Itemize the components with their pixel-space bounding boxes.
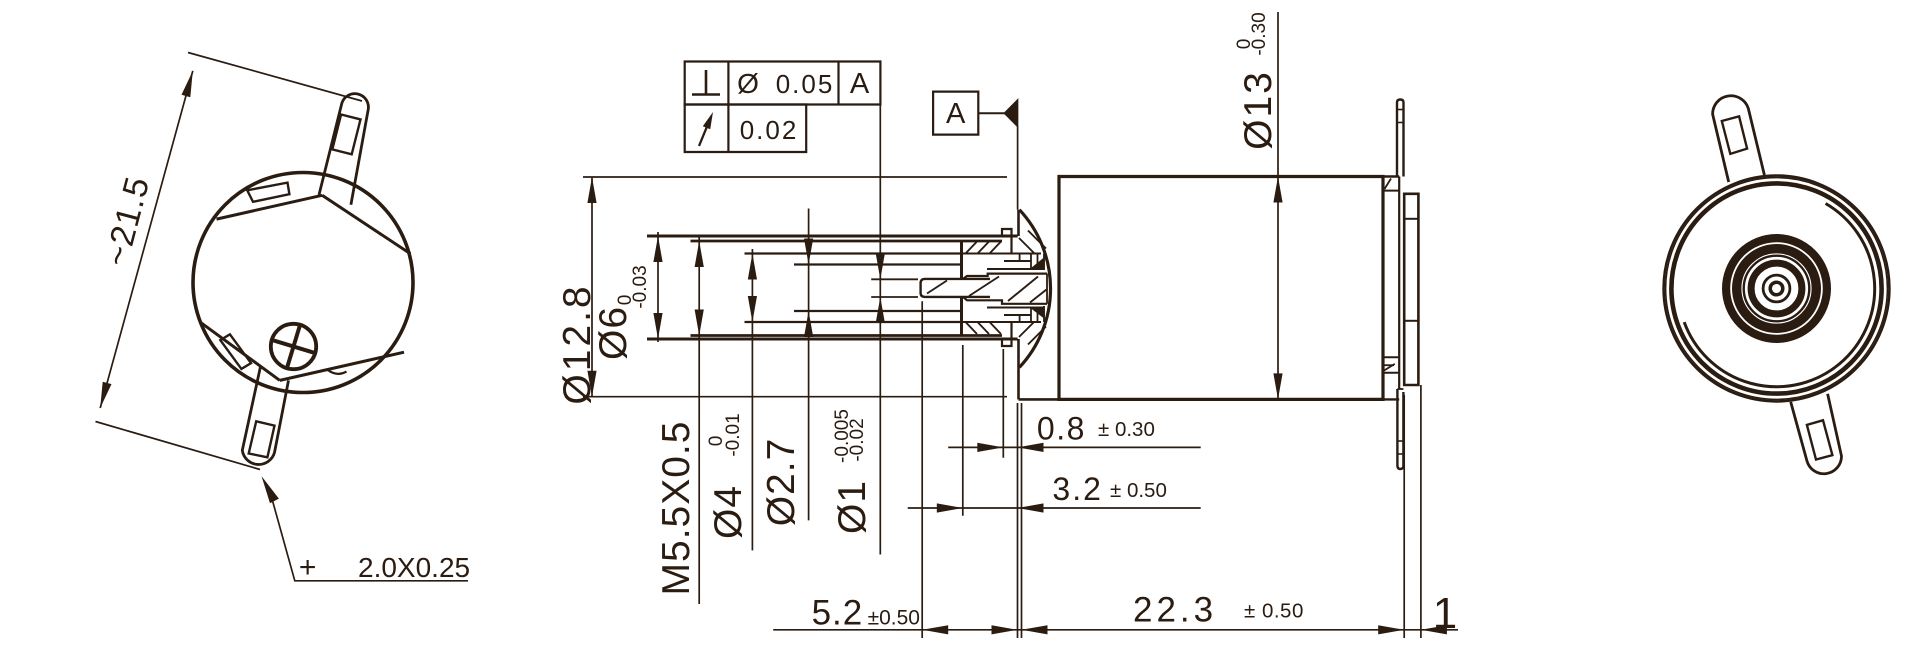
front view pin ring	[1770, 282, 1783, 295]
contact bottom vertical b	[1037, 308, 1039, 323]
dimension ~21.5 bottom arrow	[100, 382, 111, 408]
dim 0.8 left arrow	[977, 443, 1003, 452]
svg-text:-0.02: -0.02	[847, 418, 868, 461]
FCF frame row 2	[685, 105, 807, 153]
body top edge extension	[1383, 175, 1399, 177]
rear bottom pocket mid line	[1383, 364, 1394, 366]
left view bottom lug	[242, 367, 288, 465]
dim Ø1 top arrow	[876, 253, 885, 279]
ext line x922 (pin tip)	[921, 301, 923, 638]
datum A box	[933, 92, 978, 135]
rear cap line b	[1404, 320, 1418, 322]
dome upper face	[1017, 210, 1020, 236]
dim 0.8 line	[948, 446, 1200, 448]
contact bottom lower line	[963, 321, 1041, 323]
svg-text:5.2: 5.2	[812, 594, 864, 633]
dim Ø6 bottom arrow	[653, 313, 662, 339]
dim Ø4 top arrow	[748, 254, 757, 280]
sleeve flange bottom tab	[1002, 322, 1012, 347]
svg-text:Ø4: Ø4	[707, 485, 750, 539]
front view bore ring	[1763, 275, 1790, 302]
svg-text:M5.5X0.5: M5.5X0.5	[655, 421, 698, 596]
svg-text:± 0.50: ± 0.50	[1244, 600, 1304, 623]
svg-text:±0.50: ±0.50	[868, 607, 920, 630]
left view bottom-right chord	[280, 352, 404, 380]
dim 3.2 line	[908, 507, 1201, 509]
dim 5.2 left arrow	[922, 625, 948, 634]
left view cross bar 2	[287, 326, 299, 367]
rear bottom pocket upper line	[1383, 356, 1399, 358]
dim Ø12.8 top arrow	[587, 177, 596, 203]
rear cap line a	[1404, 218, 1418, 220]
body bottom edge extension	[1383, 398, 1399, 400]
dim M5.5X0.5 top arrow	[695, 241, 704, 267]
svg-text:-0.30: -0.30	[1249, 12, 1270, 55]
svg-text:A: A	[850, 68, 870, 100]
svg-text:± 0.50: ± 0.50	[1110, 479, 1167, 502]
svg-text:± 0.30: ± 0.30	[1098, 418, 1155, 441]
contact top vertical a	[1030, 254, 1032, 270]
left view cross circle	[271, 324, 316, 369]
FCF runout symbol	[699, 112, 713, 146]
dim Ø2.7 top tick	[794, 264, 824, 266]
ext line x1021.5	[1021, 403, 1023, 638]
dim 1 arrow	[1421, 625, 1447, 634]
dim Ø13 line	[1277, 12, 1279, 399]
rear bottom lug hole lower	[1398, 453, 1403, 455]
barrel bottom outer line	[647, 338, 1018, 341]
left view top lug	[319, 94, 368, 205]
dim 22.3 right arrow	[1378, 625, 1404, 634]
ext line x1420.9	[1420, 385, 1422, 638]
dim 22.3 left arrow	[1022, 625, 1048, 634]
bore Ø2.7 bottom line	[794, 310, 961, 312]
leader arrow at lug	[262, 476, 279, 503]
ext line x1017.5	[1017, 403, 1019, 638]
datum triangle	[1005, 100, 1018, 126]
center pin end	[1046, 274, 1048, 304]
svg-text:0.05: 0.05	[776, 69, 835, 99]
rear top lug	[1397, 100, 1404, 177]
contact bottom mid line	[1004, 314, 1031, 316]
dim 0.8 right arrow	[1018, 443, 1044, 452]
FCF row1 divider a	[727, 62, 729, 105]
front view rim inner arc b	[1684, 204, 1874, 387]
dim Ø1 / FCF leader line	[879, 105, 881, 555]
FCF row1 text Ø 0.05	[737, 68, 834, 99]
front view bezel circle	[1666, 178, 1888, 400]
front view bottom lug hole	[1807, 420, 1833, 459]
left view cross bar 1	[273, 340, 314, 352]
svg-text:-0.03: -0.03	[630, 265, 651, 308]
dome arc	[1019, 210, 1050, 368]
sleeve flange top tab	[1002, 229, 1012, 254]
dim Ø13 top arrow	[1273, 177, 1282, 203]
svg-text:Ø6: Ø6	[592, 306, 635, 360]
rear top lug hole lower	[1398, 122, 1404, 124]
thread bottom line	[691, 334, 1003, 337]
dim Ø12.8 bottom extension line	[583, 396, 1007, 398]
dim Ø6 top arrow	[653, 236, 662, 262]
dim Ø6 line	[657, 232, 659, 342]
front view bottom lug	[1791, 394, 1842, 474]
svg-text:3.2: 3.2	[1052, 471, 1102, 507]
contact top mid line	[1004, 260, 1031, 262]
section hatching	[966, 231, 1046, 345]
dim Ø12.8 line	[591, 177, 593, 397]
sleeve end face lower	[960, 297, 963, 336]
rear bottom lug	[1397, 389, 1403, 469]
contact bottom vertical a	[1030, 308, 1032, 323]
svg-text:Ø13: Ø13	[1237, 70, 1280, 150]
dome lower face	[1019, 339, 1060, 399]
left view top-left chord	[217, 195, 323, 219]
datum leader	[978, 112, 1005, 114]
rear bottom lug hole upper	[1398, 440, 1403, 442]
front view outer circle	[1664, 176, 1890, 402]
left view top lug hole	[332, 115, 360, 155]
svg-text:-0.01: -0.01	[723, 413, 744, 456]
rear top pocket	[1383, 190, 1399, 192]
bore Ø4 bottom line	[745, 321, 962, 323]
contact top lower line	[987, 268, 1044, 270]
left view upper-left nut facet	[247, 183, 289, 202]
FCF perpendicularity symbol	[692, 70, 720, 95]
front view top lug	[1713, 96, 1765, 182]
svg-text:0.8: 0.8	[1037, 411, 1086, 447]
svg-text:+: +	[299, 551, 317, 584]
dim Ø2.7 line	[808, 209, 810, 521]
front view thin ring	[1744, 256, 1810, 322]
dim Ø4 bottom arrow	[748, 296, 757, 322]
left view lower-left nut facet	[220, 334, 251, 369]
dim Ø2.7 top arrow	[804, 239, 813, 265]
step vertical bottom	[1019, 315, 1021, 322]
front view nut ring outer	[1726, 238, 1827, 339]
dim Ø12.8 top extension line	[583, 176, 1007, 178]
rear top pocket hatch	[1385, 179, 1392, 190]
ext line x962.8 (sleeve face)	[962, 345, 964, 516]
rear bottom pocket hatch	[1384, 364, 1395, 371]
datum extension line	[1017, 126, 1019, 210]
rear top lug hole upper	[1398, 109, 1404, 111]
thread top line	[691, 240, 1003, 243]
leader line	[271, 494, 469, 581]
rear bottom pocket lower line	[1383, 372, 1399, 374]
svg-text:Ø: Ø	[737, 68, 759, 99]
left view outer circle	[193, 173, 413, 393]
dim Ø12.8 bottom arrow	[587, 371, 596, 397]
dim 3.2 left arrow	[937, 503, 963, 512]
contact bottom upper line	[987, 307, 1044, 309]
dim Ø4 line	[751, 249, 753, 550]
contact top wedge	[1031, 259, 1044, 270]
FCF frame row 1	[685, 62, 881, 105]
left view top-right chord	[322, 195, 410, 253]
dim 3.2 right arrow	[1018, 503, 1044, 512]
rear flange plate	[1398, 177, 1400, 390]
center pin bottom steps	[963, 297, 1047, 304]
bore Ø2.7 top line	[794, 263, 961, 265]
dimension ~21.5 bottom extension line	[96, 422, 261, 470]
contact bottom wedge	[1031, 308, 1044, 318]
dimension ~21.5 top extension line	[188, 53, 362, 102]
sleeve end face upper	[960, 241, 963, 279]
center pin top steps	[963, 274, 1047, 279]
svg-text:1: 1	[1433, 589, 1457, 638]
dim Ø2.7 bottom arrow	[804, 311, 813, 337]
svg-text:22.3: 22.3	[1133, 591, 1217, 630]
svg-text:Ø1: Ø1	[831, 480, 874, 534]
bore Ø1 top tick	[871, 278, 918, 280]
svg-text:0.02: 0.02	[740, 115, 799, 145]
dim Ø13 bottom arrow	[1273, 373, 1282, 399]
svg-text:A: A	[946, 98, 966, 130]
ext line x1404.2	[1403, 395, 1405, 638]
contact top upper line	[963, 253, 1041, 255]
left view rivet arc	[327, 370, 347, 374]
dim M5.5X0.5 line	[698, 237, 700, 604]
svg-text:2.0X0.25: 2.0X0.25	[358, 552, 470, 583]
bore Ø1 bottom tick	[871, 296, 918, 298]
dim bottom line	[773, 629, 1458, 631]
dim M5.5X0.5 bottom arrow	[695, 310, 704, 336]
dim 5.2 right arrow	[992, 625, 1018, 634]
contact top vertical b	[1037, 254, 1039, 270]
ext line x1003.3 (contact step)	[1002, 349, 1004, 458]
svg-text:Ø2.7: Ø2.7	[760, 438, 803, 527]
rear bottom lug top edge	[1397, 388, 1403, 390]
body outline	[1059, 177, 1383, 400]
dimension ~21.5 line	[100, 71, 193, 408]
dim Ø2.7 bottom tick	[794, 310, 824, 312]
front view rim inner circle a	[1671, 183, 1881, 393]
contact bottom vertical c	[1043, 306, 1045, 322]
bore Ø4 top line	[745, 252, 962, 254]
dim Ø1 bottom arrow	[876, 297, 885, 323]
rear cap outline	[1404, 194, 1418, 385]
step vertical top	[1019, 254, 1021, 262]
center pin hatching	[927, 277, 1047, 303]
left view bottom-left chord	[201, 323, 280, 381]
barrel top outer line	[647, 235, 1018, 238]
FCF row1 divider b	[837, 62, 839, 105]
front view washer ring	[1737, 249, 1817, 329]
FCF row2 divider	[727, 105, 729, 153]
dimension ~21.5 top arrow	[182, 71, 193, 97]
front view top lug hole	[1722, 116, 1747, 153]
contact top vertical c	[1043, 254, 1045, 271]
front view barrel ring	[1751, 263, 1802, 314]
left view bottom lug hole	[249, 421, 275, 457]
center pin bar	[921, 279, 990, 297]
